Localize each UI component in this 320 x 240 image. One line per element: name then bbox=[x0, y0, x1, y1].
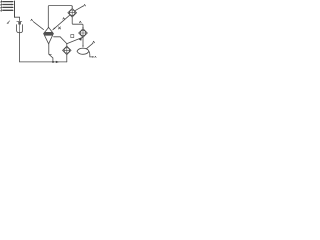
wire top feed to vessel2 bbox=[48, 6, 72, 28]
feed arrow 1 bbox=[3, 1, 13, 3]
stream arrow to lower-left bbox=[7, 21, 10, 23]
feed arrow 2 bbox=[3, 4, 13, 6]
arrow into mixer1 bbox=[72, 7, 73, 9]
feed arrow 4 bbox=[3, 9, 13, 11]
label x glyph bbox=[58, 27, 60, 29]
wire bottom run bbox=[20, 61, 67, 63]
vessel V2 filter band bbox=[44, 32, 54, 36]
label tick start diagonal bbox=[31, 19, 33, 21]
mixer M1 circle cross bbox=[69, 10, 75, 16]
arrow outlet bbox=[92, 56, 94, 58]
label tick top right bbox=[84, 4, 86, 6]
arrow on diagonal bbox=[79, 38, 82, 41]
mixer M2 diamond bbox=[79, 29, 88, 38]
feed stream label 1 bbox=[1, 1, 2, 3]
wire left diagonal into vessel2 bbox=[33, 22, 43, 30]
wire feed bus vertical bbox=[14, 1, 16, 17]
wire mixer1 down-left diagonal to vessel2 bbox=[53, 15, 70, 30]
stream rhombus up-right bbox=[87, 43, 93, 48]
stream from mixer1 up-right bbox=[75, 6, 83, 11]
arrow into mixer2 bbox=[82, 27, 83, 29]
feed arrow 3 bbox=[3, 6, 13, 8]
mixer M2 circle cross bbox=[80, 30, 86, 36]
junction dot bbox=[52, 61, 54, 63]
mixer M1 diamond bbox=[68, 8, 77, 17]
vessel V2 diamond body bbox=[44, 27, 54, 43]
wire reactor outlet down bbox=[19, 33, 21, 62]
wire mixer1 to mixer2 bbox=[72, 17, 83, 28]
motor M1 on reactor bbox=[17, 20, 22, 22]
feed stream label 2 bbox=[1, 4, 2, 6]
wire vessel2 outlet bbox=[49, 44, 53, 62]
mixer M3 circle cross bbox=[64, 48, 70, 54]
wire vessel2 side to junction bbox=[54, 37, 67, 44]
wire mixer2 diagonal to junction bbox=[67, 37, 83, 43]
label tick above wire bbox=[79, 21, 81, 23]
reactor R1 vessel bbox=[17, 25, 23, 33]
label tick on diagonal bbox=[63, 18, 65, 20]
label tiny end bbox=[95, 56, 96, 57]
arrow into rhombus bbox=[82, 46, 83, 48]
feed stream label 4 bbox=[1, 9, 2, 11]
wire junction down to mixer3 bbox=[66, 44, 68, 47]
wire mixer2 down to rhombus bbox=[82, 37, 84, 46]
arrow on bottom run bbox=[56, 61, 60, 63]
mixer M3 diamond bbox=[63, 46, 71, 54]
arrow into vessel2 bbox=[53, 28, 55, 30]
label tick upper right bbox=[93, 41, 95, 43]
wire step to reactor bbox=[15, 17, 20, 20]
agitator shaft bbox=[19, 24, 21, 33]
label box small square bbox=[71, 35, 74, 38]
rhombus separator bbox=[77, 48, 89, 54]
feed stream label 3 bbox=[1, 7, 2, 9]
wire rhombus outlet hook bbox=[89, 51, 93, 57]
valve tick on outlet bbox=[50, 53, 52, 55]
wire riser to mixer3 bbox=[66, 55, 68, 62]
